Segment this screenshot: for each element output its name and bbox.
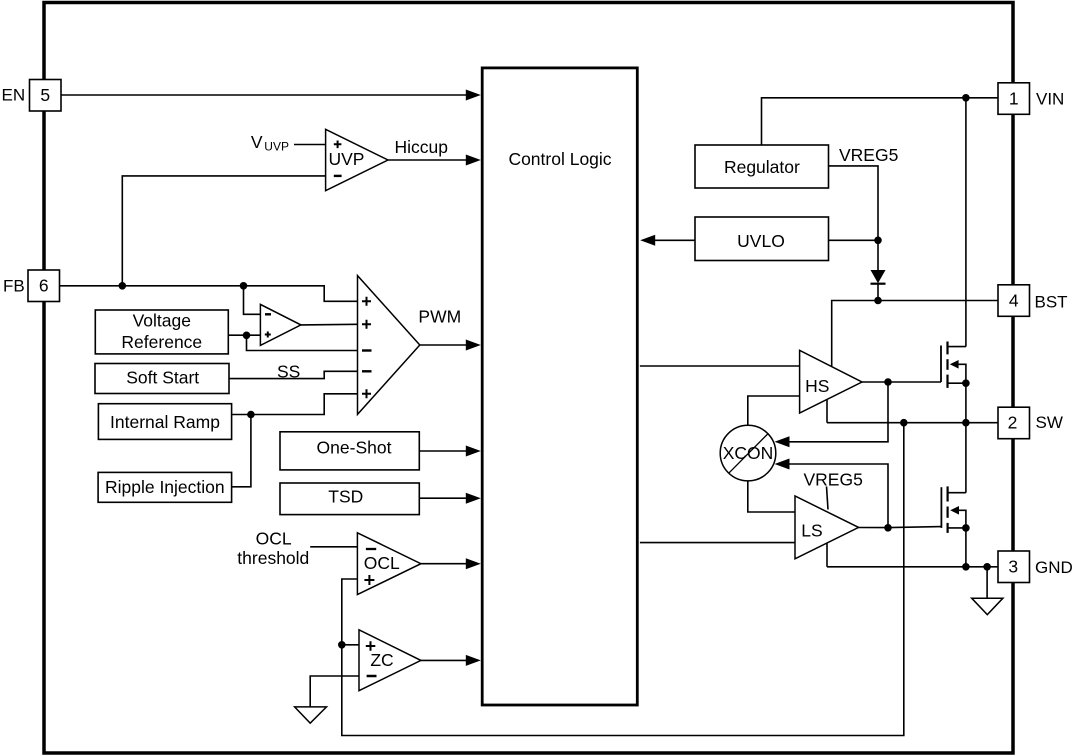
svg-text:6: 6 [39, 276, 49, 296]
svg-text:SW: SW [1036, 413, 1063, 432]
svg-text:V: V [251, 132, 263, 152]
svg-text:5: 5 [40, 85, 50, 105]
svg-text:EN: EN [2, 86, 26, 105]
svg-text:Hiccup: Hiccup [395, 137, 449, 157]
svg-text:1: 1 [1009, 88, 1019, 108]
svg-text:UVP: UVP [264, 139, 289, 153]
svg-text:One-Shot: One-Shot [317, 438, 392, 458]
svg-text:HS: HS [805, 376, 829, 396]
svg-text:SS: SS [277, 362, 300, 382]
svg-text:VREG5: VREG5 [839, 145, 898, 165]
svg-text:3: 3 [1008, 557, 1018, 577]
svg-text:PWM: PWM [418, 307, 461, 327]
svg-text:4: 4 [1009, 290, 1019, 310]
svg-text:LS: LS [801, 520, 822, 540]
svg-text:Internal Ramp: Internal Ramp [110, 412, 220, 432]
svg-text:UVP: UVP [329, 149, 365, 169]
svg-text:XCON: XCON [723, 443, 774, 463]
svg-text:Voltage: Voltage [133, 311, 191, 331]
svg-text:ZC: ZC [370, 650, 393, 670]
svg-text:TSD: TSD [328, 487, 363, 507]
svg-text:Reference: Reference [121, 332, 202, 352]
svg-text:OCL: OCL [256, 529, 292, 549]
svg-text:Soft Start: Soft Start [126, 367, 199, 387]
svg-text:threshold: threshold [237, 548, 309, 568]
svg-text:UVLO: UVLO [737, 231, 785, 251]
svg-text:VIN: VIN [1036, 89, 1064, 108]
svg-text:Ripple Injection: Ripple Injection [105, 477, 225, 497]
svg-text:2: 2 [1008, 413, 1018, 433]
svg-text:Regulator: Regulator [724, 157, 800, 177]
svg-text:Control Logic: Control Logic [508, 149, 611, 169]
svg-text:VREG5: VREG5 [804, 470, 863, 490]
svg-text:GND: GND [1035, 558, 1073, 577]
svg-text:BST: BST [1035, 292, 1068, 311]
svg-text:OCL: OCL [364, 553, 400, 573]
svg-text:FB: FB [3, 277, 25, 296]
